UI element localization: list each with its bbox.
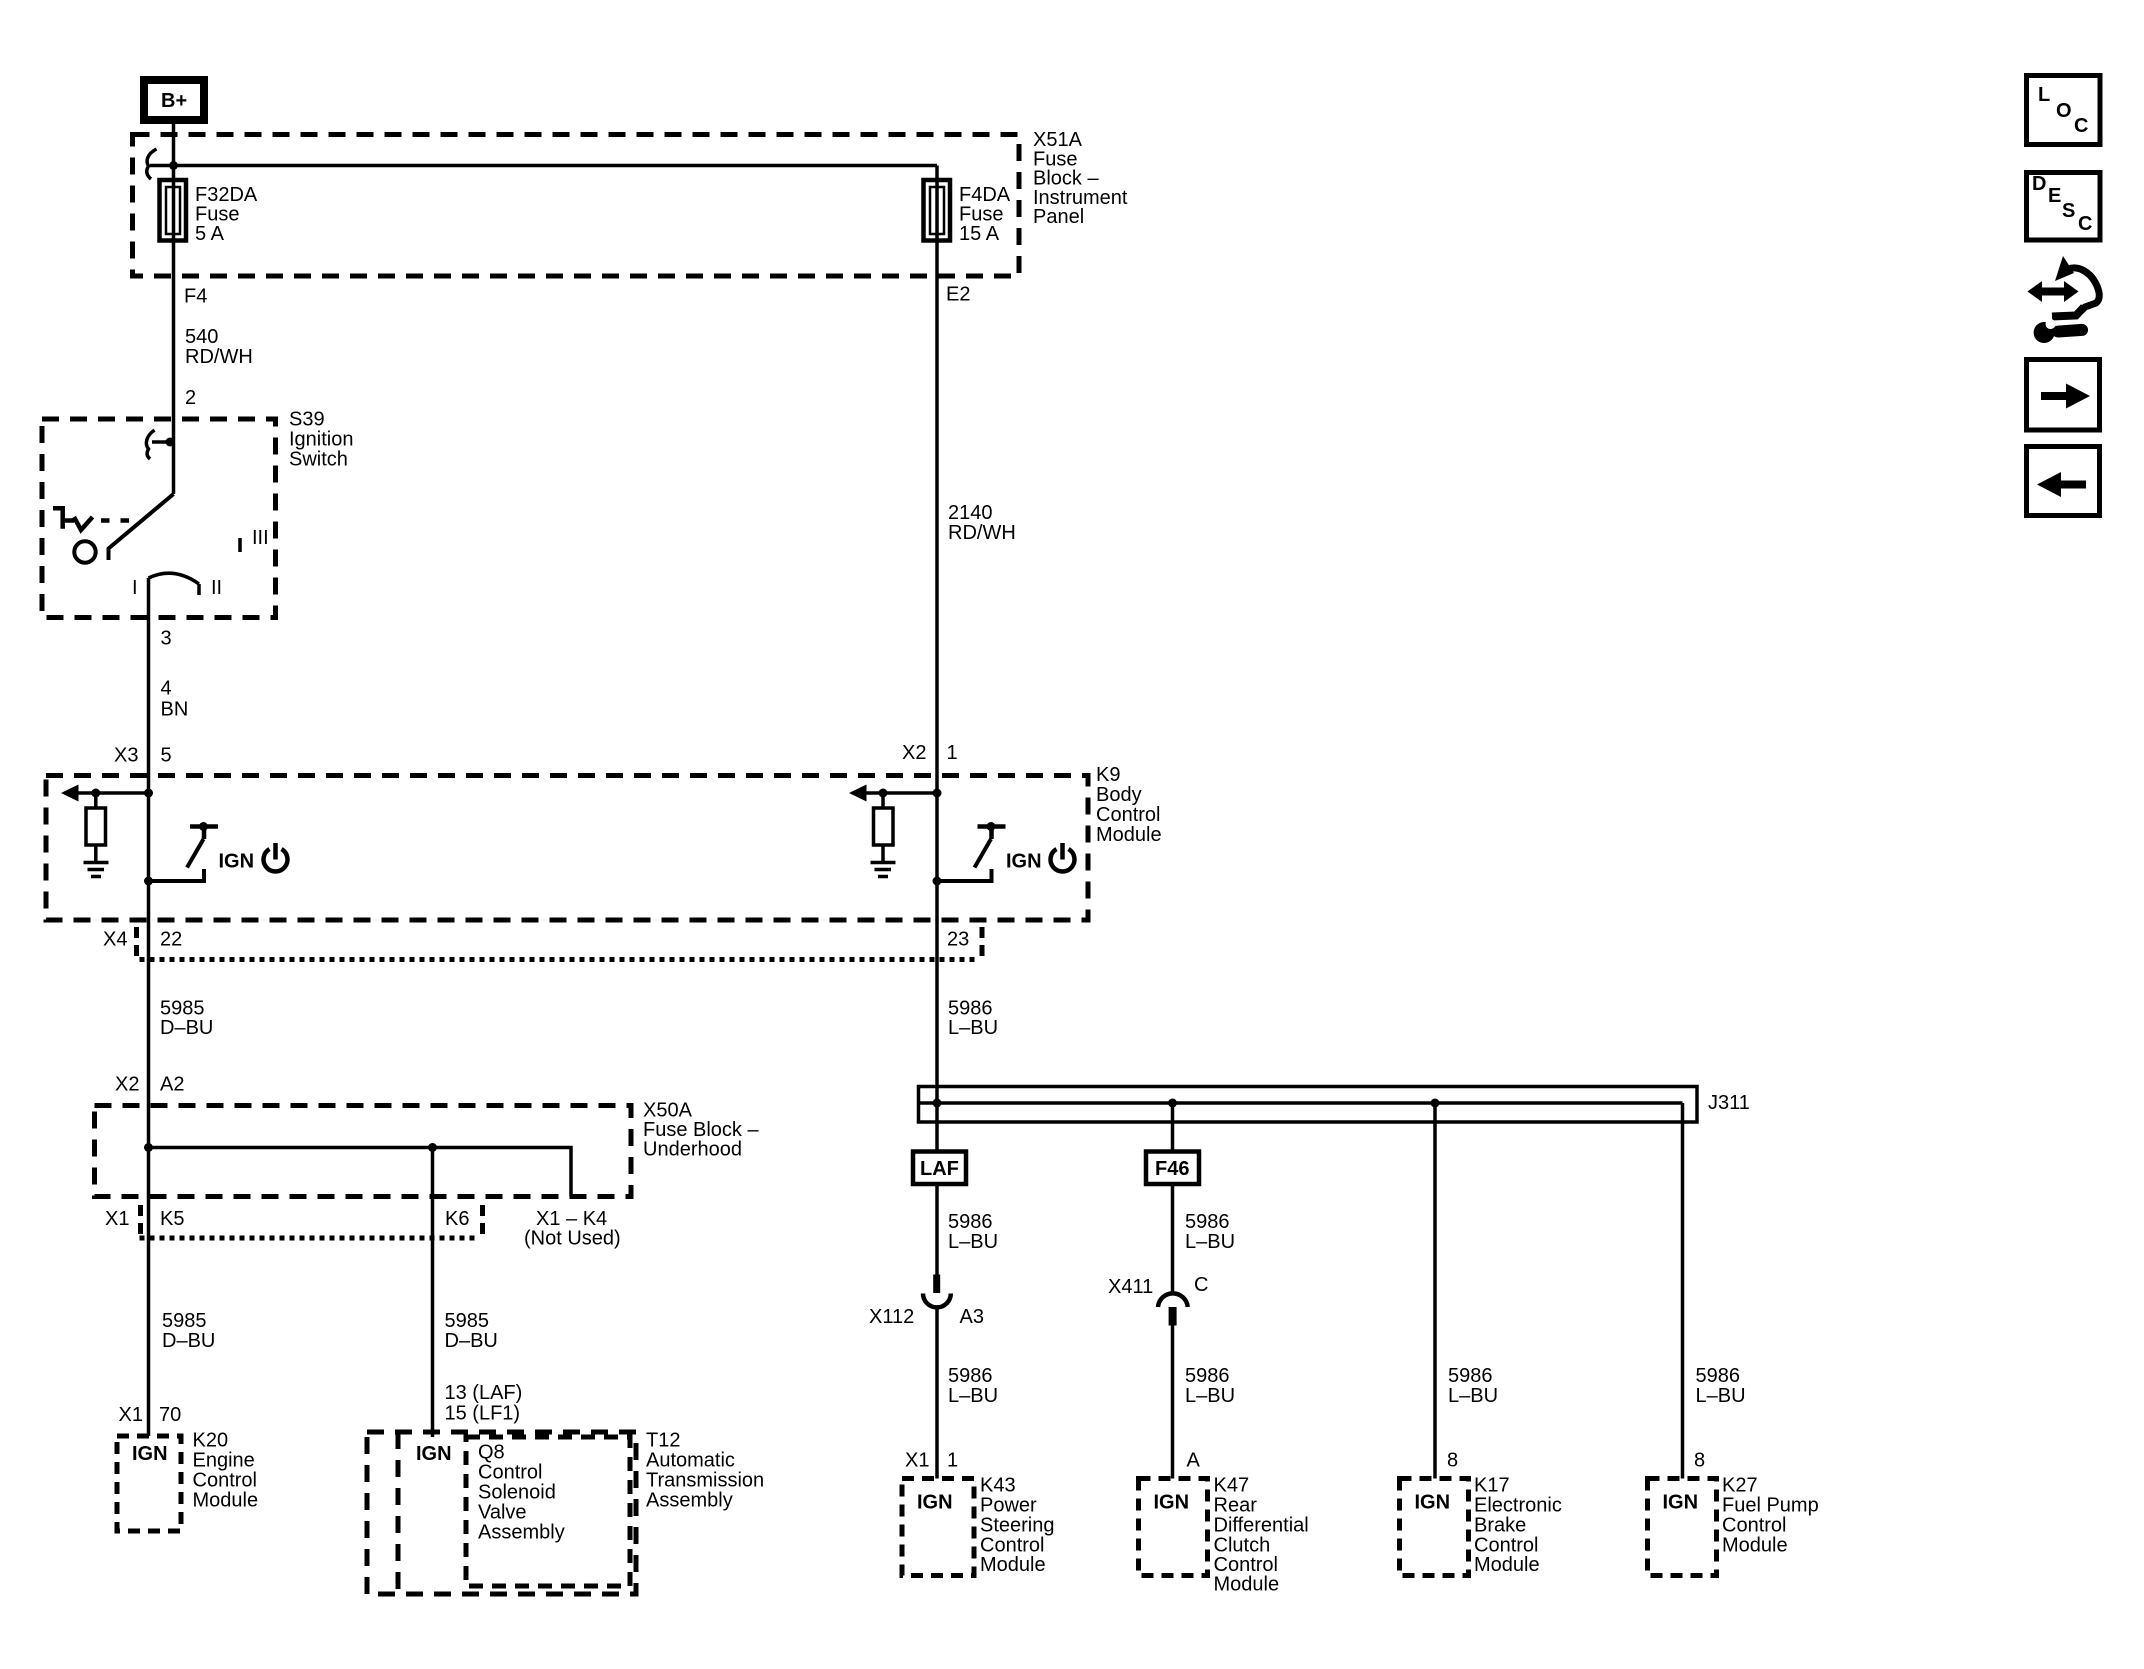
connector X411 male blade: [1169, 1307, 1177, 1326]
power symbol right: [1051, 843, 1075, 871]
contact tick to wire: [152, 440, 171, 444]
svg-text:S39: S39: [289, 409, 325, 431]
svg-text:Electronic: Electronic: [1474, 1495, 1562, 1517]
diagnostic icon hook arrow: [2052, 256, 2099, 317]
next page arrow box: [2027, 360, 2100, 431]
svg-text:K20: K20: [193, 1430, 229, 1452]
pin X4 22 label: [103, 929, 182, 951]
fuse LAF box: [913, 1152, 966, 1185]
svg-text:L–BU: L–BU: [1185, 1385, 1235, 1407]
connector separator X1: [138, 1205, 143, 1241]
svg-text:X3: X3: [114, 745, 138, 767]
wire 5986 L-BU label branch4 lower: [1696, 1365, 1746, 1407]
svg-text:2: 2: [185, 387, 196, 409]
svg-text:A: A: [1187, 1450, 1201, 1472]
svg-text:IGN: IGN: [416, 1443, 452, 1465]
resistor R right (pull): [874, 793, 894, 861]
node J311 tap 1: [933, 1099, 942, 1108]
K9 left: wire to arrow: [74, 791, 149, 795]
wire right feed vertical (F4DA to BCM to J311): [935, 166, 939, 1104]
svg-text:Power: Power: [980, 1495, 1037, 1517]
battery feed B+ terminal: [144, 80, 204, 120]
svg-text:5985: 5985: [445, 1310, 490, 1332]
svg-text:IGN: IGN: [917, 1492, 953, 1514]
position III tick: [238, 538, 242, 552]
svg-text:X112: X112: [869, 1306, 914, 1328]
fuse F4DA: [924, 180, 951, 241]
wire K6 branch down: [431, 1148, 435, 1438]
svg-text:1: 1: [947, 1450, 958, 1472]
pin X2 A2 label: [115, 1074, 184, 1096]
svg-text:4: 4: [161, 678, 172, 700]
svg-text:C: C: [2078, 213, 2092, 235]
svg-text:Module: Module: [980, 1554, 1046, 1576]
pin X1-K4 not used label: [524, 1208, 621, 1250]
splice pack J311 box: [919, 1087, 1698, 1123]
DESC icon box: [2027, 173, 2101, 241]
svg-text:Rear: Rear: [1214, 1495, 1258, 1517]
pin 13 LAF 15 LF1 label: [445, 1382, 523, 1425]
wire 5986 L-BU label (upper right): [948, 998, 998, 1040]
wire 540 RD/WH label: [185, 326, 253, 368]
svg-text:A2: A2: [160, 1074, 184, 1096]
switch IGN right: [933, 822, 1006, 886]
connector separator K6: [480, 1205, 485, 1241]
svg-text:Control: Control: [1722, 1515, 1786, 1537]
svg-text:Automatic: Automatic: [646, 1450, 735, 1472]
svg-text:IGN: IGN: [219, 851, 255, 873]
svg-text:F46: F46: [1155, 1158, 1189, 1180]
wire 5986 L-BU label branch1 mid: [948, 1211, 998, 1253]
wire 5986 L-BU label branch2 lower: [1185, 1365, 1235, 1407]
svg-text:X1: X1: [105, 1208, 129, 1230]
fuse block X50A dashed box: [95, 1106, 632, 1197]
svg-text:F4: F4: [184, 286, 207, 308]
connector X112 female cup: [923, 1294, 951, 1308]
svg-text:K43: K43: [980, 1475, 1016, 1497]
svg-text:C: C: [1194, 1274, 1208, 1296]
svg-text:D–BU: D–BU: [162, 1330, 215, 1352]
svg-text:IGN: IGN: [1154, 1492, 1190, 1514]
fuse block X51A dashed box: [133, 135, 1020, 277]
wire branch 2 F46: [1171, 1103, 1175, 1152]
svg-text:Fuel Pump: Fuel Pump: [1722, 1495, 1819, 1517]
harness dotted line X4 row: [140, 957, 980, 962]
svg-text:X2: X2: [115, 1074, 139, 1096]
wire branch2 X411 down: [1171, 1326, 1175, 1479]
wire branch 4: [1681, 1103, 1685, 1479]
svg-text:23: 23: [947, 929, 969, 951]
detent arc: [149, 573, 200, 584]
svg-text:Ignition: Ignition: [289, 429, 354, 451]
svg-text:2140: 2140: [948, 502, 993, 524]
svg-text:B+: B+: [161, 90, 187, 112]
svg-text:RD/WH: RD/WH: [948, 522, 1016, 544]
svg-text:X1: X1: [905, 1450, 929, 1472]
fuse F32DA value label: [195, 184, 258, 245]
svg-text:L: L: [2038, 84, 2050, 106]
svg-text:Module: Module: [193, 1490, 259, 1512]
wire 5986 L-BU label branch2 mid: [1185, 1211, 1235, 1253]
svg-text:IGN: IGN: [1006, 851, 1042, 873]
K17 label: [1474, 1475, 1562, 1577]
svg-text:E2: E2: [946, 284, 970, 306]
switch IGN left: [144, 822, 218, 886]
electronic brake control module K17 dashed box: [1400, 1479, 1469, 1576]
resistor R left (pull): [86, 793, 106, 861]
X51A label: [1033, 129, 1128, 228]
svg-text:Transmission: Transmission: [646, 1470, 764, 1492]
svg-text:Assembly: Assembly: [478, 1522, 565, 1544]
switch contact circle: [74, 541, 95, 562]
svg-text:T12: T12: [646, 1430, 680, 1452]
node resistor tap: [91, 789, 100, 798]
key dotted link: [101, 518, 138, 523]
K20 label: [193, 1430, 259, 1512]
svg-text:O: O: [2056, 100, 2072, 122]
wire 5986 L-BU label branch1 lower: [948, 1365, 998, 1407]
svg-text:70: 70: [159, 1404, 181, 1426]
svg-text:K5: K5: [160, 1208, 184, 1230]
wire branch 3: [1433, 1103, 1437, 1479]
switch blade S39: [109, 494, 174, 560]
svg-text:L–BU: L–BU: [948, 1017, 998, 1039]
svg-text:Control: Control: [193, 1470, 257, 1492]
svg-text:L–BU: L–BU: [1696, 1385, 1746, 1407]
svg-text:C: C: [2074, 115, 2088, 137]
svg-text:L–BU: L–BU: [948, 1385, 998, 1407]
node junction right: [933, 789, 942, 798]
node splice at B+ feed: [169, 161, 178, 170]
pin X2 1 label: [902, 742, 958, 764]
wire 5985 D-BU label (lower left): [162, 1310, 215, 1352]
svg-text:Assembly: Assembly: [646, 1490, 733, 1512]
contact hook pin 2: [146, 430, 154, 459]
svg-text:Solenoid: Solenoid: [478, 1482, 556, 1504]
svg-text:15 (LF1): 15 (LF1): [445, 1403, 521, 1425]
wire 2140 RD/WH label: [948, 502, 1016, 544]
svg-text:IGN: IGN: [1663, 1492, 1699, 1514]
svg-text:E: E: [2048, 185, 2061, 207]
connector hook at fuse block feed: [147, 149, 157, 179]
svg-text:5986: 5986: [1185, 1365, 1230, 1387]
svg-text:D–BU: D–BU: [160, 1017, 213, 1039]
wire branch1 X112 down: [935, 1308, 939, 1479]
K9 left arrow head: [61, 785, 79, 802]
ground left: [84, 863, 109, 877]
body control module K9 dashed box: [46, 776, 1088, 921]
svg-text:S: S: [2062, 200, 2075, 222]
wire branch1 LAF to X112: [935, 1184, 939, 1275]
svg-text:D–BU: D–BU: [445, 1330, 498, 1352]
connector X411 female cup: [1158, 1293, 1188, 1307]
svg-text:15 A: 15 A: [959, 223, 1000, 245]
svg-text:Differential: Differential: [1214, 1515, 1309, 1537]
wire 5985 D-BU label (upper): [160, 998, 213, 1040]
svg-text:Panel: Panel: [1033, 206, 1084, 228]
connector separator X4: [134, 927, 139, 963]
svg-text:22: 22: [160, 929, 182, 951]
svg-text:5985: 5985: [162, 1310, 207, 1332]
svg-text:Module: Module: [1214, 1574, 1280, 1596]
node K5 tap: [144, 1143, 153, 1152]
diagnostic icon wrench: [2033, 316, 2089, 343]
power steering control module K43 dashed box: [902, 1479, 974, 1576]
pin X1 K5 label: [105, 1208, 184, 1230]
svg-text:I: I: [132, 577, 138, 599]
svg-text:IGN: IGN: [1415, 1492, 1451, 1514]
svg-text:Valve: Valve: [478, 1502, 527, 1524]
svg-text:Engine: Engine: [193, 1450, 255, 1472]
key symbol: [53, 506, 93, 530]
wire ignition output down: [147, 578, 151, 1436]
node resistor tap right: [879, 789, 888, 798]
svg-text:5986: 5986: [948, 1365, 993, 1387]
wire J311 internal bus: [919, 1101, 1683, 1105]
svg-text:5986: 5986: [1185, 1211, 1230, 1233]
svg-text:K17: K17: [1474, 1475, 1510, 1497]
diagnostic icon double arrow: [2028, 281, 2079, 302]
fuse F32DA: [160, 180, 187, 241]
node J311 tap 3: [1431, 1099, 1440, 1108]
LOC icon box: [2027, 76, 2101, 145]
svg-text:5986: 5986: [1696, 1365, 1741, 1387]
svg-text:Module: Module: [1722, 1535, 1788, 1557]
svg-text:Steering: Steering: [980, 1515, 1055, 1537]
svg-text:X4: X4: [103, 929, 127, 951]
svg-text:II: II: [211, 577, 222, 599]
node contact dot: [166, 438, 175, 447]
svg-text:540: 540: [185, 326, 218, 348]
previous page arrow box: [2027, 447, 2100, 516]
svg-text:Body: Body: [1096, 784, 1142, 806]
svg-text:K6: K6: [445, 1208, 469, 1230]
detent arc right tick: [197, 584, 201, 595]
svg-text:L–BU: L–BU: [1448, 1385, 1498, 1407]
svg-text:J311: J311: [1708, 1092, 1750, 1114]
svg-text:5986: 5986: [948, 1211, 993, 1233]
ground right: [871, 863, 896, 877]
connector separator 23: [980, 927, 985, 963]
svg-text:Brake: Brake: [1474, 1515, 1526, 1537]
wire top horizontal feed: [150, 164, 937, 168]
node J311 tap 2: [1168, 1099, 1177, 1108]
Q8 label: [478, 1442, 565, 1544]
svg-text:Q8: Q8: [478, 1442, 505, 1464]
svg-text:K27: K27: [1722, 1475, 1758, 1497]
K9 right arrow head: [849, 785, 867, 802]
svg-text:Module: Module: [1474, 1554, 1540, 1576]
wire branch 1 LAF: [935, 1103, 939, 1152]
svg-text:13 (LAF): 13 (LAF): [445, 1382, 523, 1404]
svg-text:3: 3: [161, 628, 172, 650]
K43 label: [980, 1475, 1055, 1577]
svg-text:Control: Control: [1096, 804, 1160, 826]
node junction: [144, 789, 153, 798]
pin X3 5 label: [114, 745, 172, 767]
svg-text:K9: K9: [1096, 764, 1120, 786]
svg-text:1: 1: [947, 742, 958, 764]
wire 5985 D-BU label (K6 branch): [445, 1310, 498, 1352]
svg-text:5: 5: [161, 745, 172, 767]
S39 label: [289, 409, 354, 471]
wire X50A internal bus: [149, 1148, 572, 1197]
wire 4 BN label: [161, 678, 189, 721]
engine control module K20 dashed box: [117, 1436, 181, 1531]
fuel pump control module K27 dashed box: [1648, 1479, 1717, 1576]
svg-text:BN: BN: [161, 699, 189, 721]
svg-text:K47: K47: [1214, 1475, 1250, 1497]
svg-text:LAF: LAF: [920, 1158, 959, 1180]
svg-text:X1: X1: [119, 1404, 143, 1426]
svg-text:L–BU: L–BU: [948, 1231, 998, 1253]
wire B+ down to splice: [172, 124, 176, 166]
K9 right: wire to arrow: [862, 791, 937, 795]
wire main feed vertical left (to ignition switch pivot): [172, 166, 176, 495]
node K6 tap: [428, 1143, 437, 1152]
T12 label: [646, 1430, 764, 1512]
fuse F46 box: [1146, 1152, 1199, 1185]
pin X1 70 label: [119, 1404, 182, 1426]
transmission T12 outer dashed box: [367, 1432, 636, 1594]
svg-text:X411: X411: [1108, 1276, 1153, 1298]
solenoid Q8 dashed box: [466, 1437, 630, 1586]
svg-text:X2: X2: [902, 742, 926, 764]
svg-text:A3: A3: [960, 1306, 984, 1328]
rear diff clutch control module K47 dashed box: [1139, 1479, 1208, 1576]
svg-text:8: 8: [1694, 1450, 1705, 1472]
svg-text:RD/WH: RD/WH: [185, 346, 253, 368]
svg-text:Underhood: Underhood: [643, 1139, 742, 1161]
X50A label: [643, 1100, 759, 1161]
svg-text:5986: 5986: [1448, 1365, 1493, 1387]
wire branch2 F46 to X411: [1171, 1184, 1175, 1293]
connector X112 male blade: [933, 1275, 940, 1294]
svg-text:8: 8: [1447, 1450, 1458, 1472]
K9 label: [1096, 764, 1162, 846]
power symbol left: [264, 843, 288, 871]
svg-text:Control: Control: [478, 1462, 542, 1484]
fuse F4DA value label: [959, 184, 1011, 245]
pin X1 1 label K43: [905, 1450, 958, 1472]
K27 label: [1722, 1475, 1819, 1557]
ignition switch S39 dashed box: [42, 419, 276, 618]
svg-text:III: III: [252, 527, 269, 549]
svg-text:(Not Used): (Not Used): [524, 1228, 621, 1250]
svg-text:Module: Module: [1096, 824, 1162, 846]
svg-text:L–BU: L–BU: [1185, 1231, 1235, 1253]
svg-text:D: D: [2032, 173, 2046, 195]
K47 label: [1214, 1475, 1309, 1596]
wire 5986 L-BU label branch3 lower: [1448, 1365, 1498, 1407]
svg-text:Switch: Switch: [289, 449, 348, 471]
svg-text:IGN: IGN: [132, 1443, 168, 1465]
harness dotted line X1 row: [140, 1236, 479, 1241]
T12 inner wall dashed line: [396, 1432, 401, 1594]
svg-text:5 A: 5 A: [195, 223, 225, 245]
